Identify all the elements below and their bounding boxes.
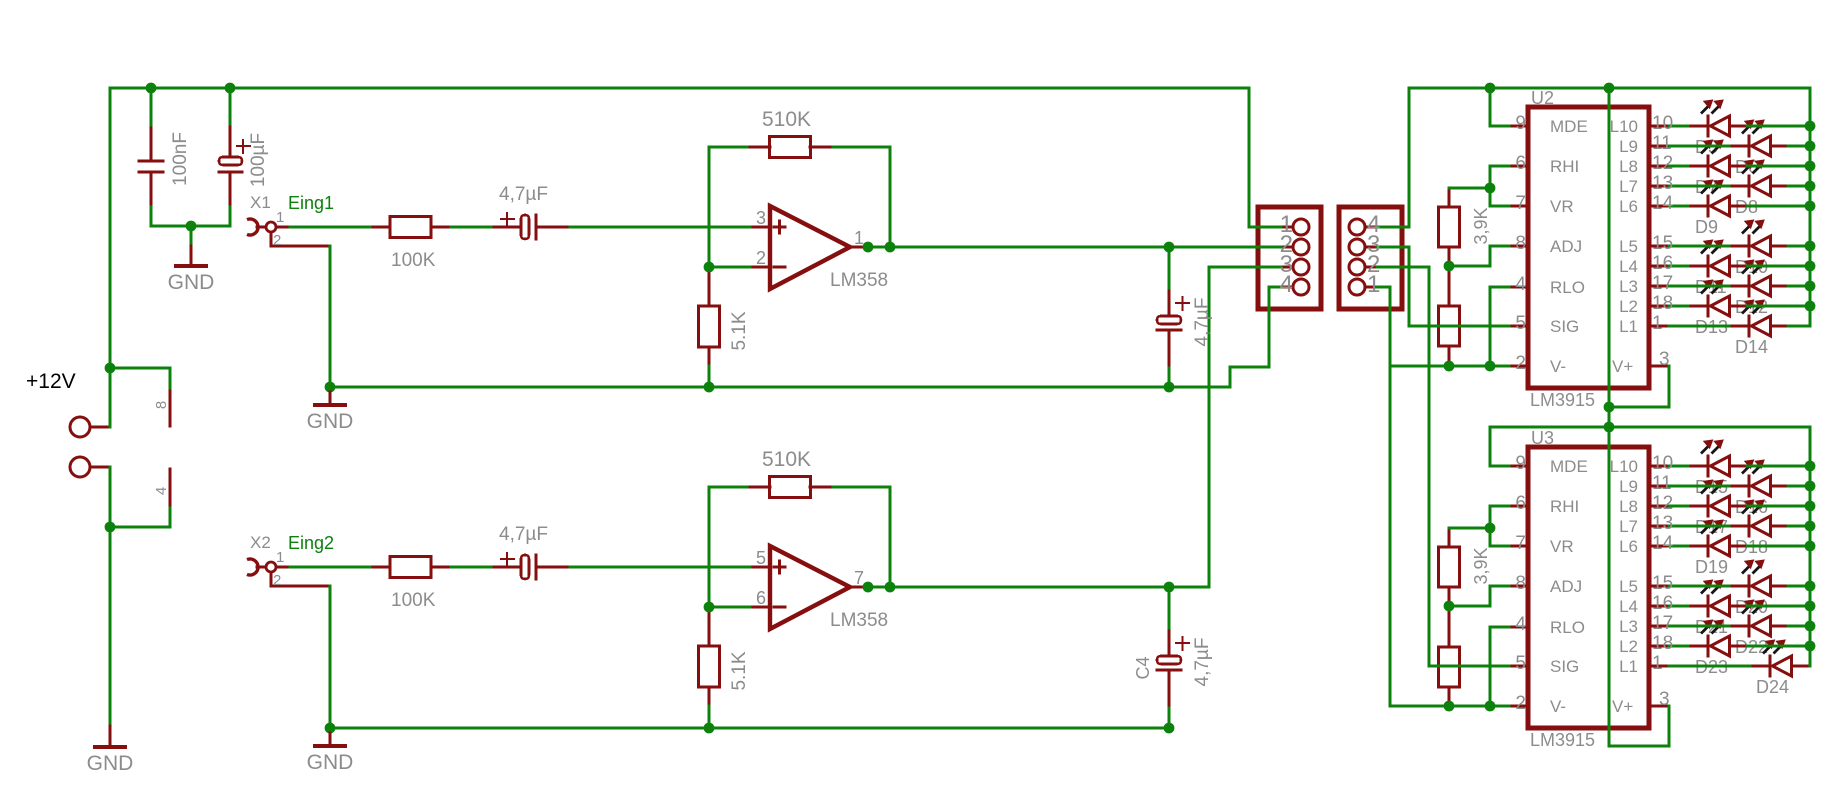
wire X1 pin2 to ground rail: [329, 245, 332, 389]
wire U3 top rail: [1489, 426, 1812, 429]
pin 15 L5 U2: [1648, 245, 1671, 248]
svg-text:5: 5: [756, 548, 766, 568]
svg-text:VR: VR: [1550, 197, 1574, 216]
wire out1 to connector pin2: [1168, 246, 1283, 249]
LED D22: [1728, 625, 1751, 628]
wire cap to op-amp +input: [569, 226, 752, 229]
svg-text:16: 16: [1652, 593, 1673, 614]
ground rail symbol: [329, 732, 332, 748]
connector X1 pin circle: [266, 222, 276, 232]
junction cap rail: [1164, 723, 1175, 734]
resistor 5.1K: [708, 606, 711, 648]
LED D5: [1687, 125, 1710, 128]
junction rail D20: [1805, 581, 1816, 592]
svg-text:1: 1: [1652, 313, 1663, 334]
LED D21: [1687, 605, 1710, 608]
capacitor 4,7uF series: [490, 226, 523, 229]
svg-text:L8: L8: [1619, 157, 1638, 176]
svg-text:4: 4: [1280, 271, 1293, 298]
wire 100uF top: [229, 87, 232, 126]
wire D9 anode: [1746, 205, 1812, 208]
svg-text:6: 6: [1515, 153, 1526, 174]
svg-text:3: 3: [1659, 689, 1670, 710]
svg-text:X1: X1: [250, 193, 271, 212]
svg-text:18: 18: [1652, 293, 1673, 314]
wire V+ vertical: [1608, 87, 1611, 748]
junction rail D7: [1805, 161, 1816, 172]
pin 3 V+ U2: [1648, 365, 1671, 368]
junction top rail / 100uF: [225, 83, 236, 94]
wire out2 to connector pin3: [1168, 586, 1211, 589]
svg-text:7: 7: [1515, 533, 1526, 554]
wire D24 cathode: [1668, 665, 1752, 668]
wire terminal2: [89, 466, 112, 469]
svg-text:4: 4: [1515, 614, 1526, 635]
svg-text:3,9K: 3,9K: [1471, 207, 1491, 244]
wire 5.1K to rail: [708, 365, 711, 389]
svg-text:8: 8: [153, 401, 170, 409]
wire D19 anode: [1746, 545, 1812, 548]
junction rail D11: [1805, 261, 1816, 272]
svg-text:100µF: 100µF: [248, 133, 269, 187]
capacitor 4,7uF shunt: [1168, 287, 1171, 318]
resistor 100K: [390, 217, 431, 238]
svg-text:V-: V-: [1550, 357, 1566, 376]
op-amp plus mark: [773, 566, 787, 569]
connector X2 pin circle: [266, 562, 276, 572]
wire conn pin3 to U2 SIG: [1376, 246, 1411, 249]
svg-text:U2: U2: [1531, 88, 1554, 108]
junction rail D5: [1805, 121, 1816, 132]
svg-text:3,9K: 3,9K: [1471, 547, 1491, 584]
pin 14 L6 U3: [1648, 545, 1671, 548]
wire input to 100K: [289, 566, 372, 569]
wire D8 anode: [1787, 185, 1812, 188]
junction rail D16: [1805, 481, 1816, 492]
wire gnd rail1 staircase: [1168, 386, 1232, 389]
connector pin circle 4: [1349, 219, 1365, 235]
junction cap rail: [1164, 382, 1175, 393]
wire op-amp output: [867, 586, 1171, 589]
pin 4 RLO U3: [1508, 626, 1530, 629]
junction rail D21: [1805, 601, 1816, 612]
svg-text:LM358: LM358: [830, 270, 888, 291]
junction V+ U2: [1604, 402, 1615, 413]
LED D14: [1728, 325, 1751, 328]
junction ground rail: [325, 723, 336, 734]
connector X2 jack arc: [247, 559, 258, 575]
svg-text:2: 2: [1515, 353, 1526, 374]
svg-text:9: 9: [1515, 453, 1526, 474]
wire D20 anode: [1787, 585, 1812, 588]
capacitor 4,7uF series: [490, 566, 523, 569]
wire feedback right: [832, 146, 892, 149]
wire gnd stub: [190, 225, 193, 248]
pin 9 MDE U3: [1508, 465, 1530, 468]
wire +12V top rail: [109, 87, 1251, 90]
wire D17 anode: [1746, 505, 1812, 508]
svg-text:510K: 510K: [762, 448, 811, 471]
svg-text:V+: V+: [1612, 697, 1633, 716]
wire conn pin2 to U3 SIG: [1376, 266, 1431, 269]
svg-text:LM358: LM358: [830, 610, 888, 631]
svg-text:14: 14: [1652, 533, 1674, 554]
ground rail symbol: [329, 391, 332, 407]
junction rail D22: [1805, 621, 1816, 632]
connector pin circle 1: [1349, 279, 1365, 295]
wire D16 anode: [1787, 485, 1812, 488]
wire ADJ U2: [1489, 245, 1511, 248]
svg-text:4,7µF: 4,7µF: [499, 184, 548, 205]
junction op-amp output: [863, 242, 874, 253]
wire U3 V- row: [1389, 705, 1511, 708]
junction rail D6: [1805, 141, 1816, 152]
wire feedback left vertical: [708, 486, 711, 609]
IC U3 LM3915 body: [1528, 447, 1649, 728]
wire D13 cathode: [1668, 305, 1690, 308]
svg-text:4,7µF: 4,7µF: [1192, 638, 1213, 687]
IC U2 LM3915 body: [1528, 107, 1649, 388]
plus mark series cap: [500, 558, 515, 560]
wire D11 anode: [1746, 265, 1812, 268]
wire D7 cathode: [1668, 165, 1690, 168]
svg-text:L2: L2: [1619, 637, 1638, 656]
wire D12 cathode: [1668, 285, 1731, 288]
svg-text:18: 18: [1652, 633, 1673, 654]
power pin 4 LM358: [169, 468, 172, 510]
svg-text:17: 17: [1652, 613, 1673, 634]
wire feedback left vertical: [708, 146, 711, 269]
wire D21 cathode: [1668, 605, 1690, 608]
svg-text:V+: V+: [1612, 357, 1633, 376]
wire D17 cathode: [1668, 505, 1690, 508]
pin 15 L5 U3: [1648, 585, 1671, 588]
wire D23 anode: [1746, 645, 1812, 648]
wire -input: [708, 606, 752, 609]
wire terminal1: [89, 426, 112, 429]
resistor 3,9K upper U2: [1448, 187, 1451, 209]
connector block: [1339, 207, 1402, 309]
wire D12 anode: [1787, 285, 1812, 288]
plus mark shunt cap: [1175, 302, 1190, 304]
svg-text:L6: L6: [1619, 537, 1638, 556]
junction rail D23: [1805, 641, 1816, 652]
pin 5 SIG U3: [1508, 665, 1530, 668]
wire V+ hook U3: [1668, 705, 1671, 748]
pin 6 RHI U3: [1508, 505, 1530, 508]
LED D16: [1728, 485, 1751, 488]
wire D20 cathode: [1668, 585, 1731, 588]
svg-text:L1: L1: [1619, 657, 1638, 676]
LED D11: [1687, 265, 1710, 268]
svg-text:L2: L2: [1619, 297, 1638, 316]
op-amp minus mark: [773, 606, 787, 609]
wire D8 cathode: [1668, 185, 1731, 188]
junction -input / 5.1K: [704, 602, 715, 613]
wire MDE U2: [1489, 87, 1492, 128]
wire D16 cathode: [1668, 485, 1731, 488]
wire D18 cathode: [1668, 525, 1731, 528]
svg-text:2: 2: [273, 572, 281, 589]
svg-text:L3: L3: [1619, 617, 1638, 636]
wire D9 cathode: [1668, 205, 1690, 208]
svg-text:Eing2: Eing2: [288, 533, 334, 553]
svg-text:8: 8: [1515, 233, 1526, 254]
svg-text:6: 6: [1515, 493, 1526, 514]
junction output cap: [1164, 242, 1175, 253]
junction V- row U2: [1444, 361, 1455, 372]
svg-text:12: 12: [1652, 493, 1673, 514]
svg-text:MDE: MDE: [1550, 117, 1588, 136]
wire ground rail: [329, 386, 1171, 389]
pin 18 L2 U3: [1648, 645, 1671, 648]
pin 4 RLO U2: [1508, 286, 1530, 289]
op-amp LM358: [770, 206, 850, 289]
svg-text:GND: GND: [307, 751, 354, 774]
LED D6: [1728, 145, 1751, 148]
wire GND left vertical: [109, 466, 112, 728]
svg-text:5.1K: 5.1K: [729, 311, 750, 350]
pin 13 L7 U2: [1648, 185, 1671, 188]
wire RHI/VR U2: [1489, 165, 1511, 168]
svg-text:4: 4: [153, 487, 170, 495]
pin 13 L7 U3: [1648, 525, 1671, 528]
wire GND to pin4: [109, 526, 172, 529]
wire U2 V- row: [1389, 365, 1511, 368]
junction V+ U3 rail: [1604, 422, 1615, 433]
wire X1 pin2: [270, 231, 273, 248]
op-amp plus mark: [773, 226, 787, 229]
wire 5.1K to rail: [708, 705, 711, 730]
LED D20: [1728, 585, 1751, 588]
svg-text:5.1K: 5.1K: [729, 651, 750, 690]
pin 14 L6 U2: [1648, 205, 1671, 208]
svg-text:9: 9: [1515, 113, 1526, 134]
wire D7 anode: [1746, 165, 1812, 168]
svg-text:+12V: +12V: [26, 370, 76, 393]
svg-text:4,7µF: 4,7µF: [1192, 298, 1213, 347]
svg-text:L5: L5: [1619, 577, 1638, 596]
svg-text:RHI: RHI: [1550, 497, 1579, 516]
pin 1 L1 U3: [1648, 665, 1671, 668]
svg-text:L7: L7: [1619, 177, 1638, 196]
wire op-amp output: [867, 246, 1171, 249]
wire 100uF bottom: [229, 206, 232, 228]
terminal circle GND pin2: [70, 457, 90, 477]
svg-text:1: 1: [1367, 271, 1380, 298]
wire MDE U3: [1489, 426, 1492, 468]
junction output cap: [1164, 582, 1175, 593]
junction GND branch: [105, 522, 116, 533]
wire D23 cathode: [1668, 645, 1690, 648]
wire RLO U3: [1489, 626, 1511, 629]
pin 6 RHI U2: [1508, 165, 1530, 168]
pin 10 L10 U3: [1648, 465, 1671, 468]
wire +12V to pin8: [109, 367, 172, 370]
wire 100K to cap: [450, 566, 493, 569]
junction rail D15: [1805, 461, 1816, 472]
wire D22 anode: [1787, 625, 1812, 628]
pin 17 L3 U3: [1648, 625, 1671, 628]
pin 12 L8 U2: [1648, 165, 1671, 168]
LED D19: [1687, 545, 1710, 548]
svg-text:L7: L7: [1619, 517, 1638, 536]
svg-text:14: 14: [1652, 193, 1674, 214]
svg-text:1: 1: [276, 209, 284, 226]
svg-text:1: 1: [854, 228, 864, 248]
wire conn pin1 to V- net: [1376, 286, 1392, 289]
junction top rail MDE: [1485, 83, 1496, 94]
connector pin circle 4: [1293, 279, 1309, 295]
wire D5 cathode: [1668, 125, 1690, 128]
svg-text:4: 4: [1515, 274, 1526, 295]
svg-text:L3: L3: [1619, 277, 1638, 296]
wire D5 anode: [1746, 125, 1812, 128]
wire D22 cathode: [1668, 625, 1731, 628]
wire D21 anode: [1746, 605, 1812, 608]
wire input to 100K: [289, 226, 372, 229]
svg-text:3: 3: [1659, 349, 1670, 370]
resistor 3,9K lower U2: [1448, 265, 1451, 308]
wire +12V top rail right segment: [1408, 87, 1812, 90]
wire D6 anode: [1787, 145, 1812, 148]
junction RHI VR divider U2: [1485, 183, 1496, 194]
pin 9 MDE U2: [1508, 125, 1530, 128]
connector pin circle 1: [1293, 219, 1309, 235]
resistor 510K: [770, 137, 811, 158]
pin 17 L3 U2: [1648, 285, 1671, 288]
wire LED anode rail: [1809, 426, 1812, 668]
svg-text:RHI: RHI: [1550, 157, 1579, 176]
svg-text:2: 2: [273, 232, 281, 249]
junction 5.1K rail: [704, 723, 715, 734]
pin 1 L1 U2: [1648, 325, 1671, 328]
LED D10: [1728, 245, 1751, 248]
wire D13 anode: [1746, 305, 1812, 308]
wire cap to op-amp +input: [569, 566, 752, 569]
resistor 3,9K lower U3: [1448, 605, 1451, 649]
svg-text:8: 8: [1515, 573, 1526, 594]
svg-text:Eing1: Eing1: [288, 193, 334, 213]
resistor 100K: [390, 557, 431, 578]
svg-text:C4: C4: [1133, 656, 1153, 679]
LED D15: [1687, 465, 1710, 468]
svg-text:VR: VR: [1550, 537, 1574, 556]
pin 16 L4 U3: [1648, 605, 1671, 608]
svg-text:100nF: 100nF: [170, 132, 191, 186]
svg-text:13: 13: [1652, 173, 1673, 194]
junction rail D8: [1805, 181, 1816, 192]
wire ADJ U3: [1489, 585, 1511, 588]
svg-text:11: 11: [1652, 133, 1672, 154]
junction caps gnd: [186, 221, 197, 232]
pin 11 L9 U3: [1648, 485, 1671, 488]
svg-text:LM3915: LM3915: [1530, 390, 1595, 410]
svg-text:MDE: MDE: [1550, 457, 1588, 476]
connector pin circle 3: [1293, 259, 1309, 275]
svg-text:ADJ: ADJ: [1550, 237, 1582, 256]
junction top rail / 100nF: [146, 83, 157, 94]
pin 16 L4 U2: [1648, 265, 1671, 268]
svg-text:GND: GND: [87, 752, 134, 775]
connector X2 pin1 stub: [275, 566, 292, 569]
wire +12V to connector pin1: [1248, 87, 1251, 229]
svg-text:15: 15: [1652, 233, 1673, 254]
svg-text:1: 1: [1652, 653, 1663, 674]
junction +12V branch: [105, 363, 116, 374]
wire 100nF bottom: [150, 206, 153, 228]
LED D23: [1687, 645, 1710, 648]
LED D7: [1687, 165, 1710, 168]
svg-text:D24: D24: [1756, 677, 1789, 697]
resistor 5.1K: [708, 266, 711, 308]
connector X1 pin1 stub: [275, 226, 292, 229]
svg-text:10: 10: [1652, 453, 1673, 474]
connector pin circle 2: [1349, 259, 1365, 275]
LED D18: [1728, 525, 1751, 528]
junction RHI VR divider U3: [1485, 523, 1496, 534]
svg-text:2: 2: [756, 248, 766, 268]
junction rail D12: [1805, 281, 1816, 292]
resistor 510K: [770, 477, 811, 498]
capacitor C4 4,7uF: [1168, 627, 1171, 658]
svg-text:SIG: SIG: [1550, 657, 1579, 676]
connector pin circle 2: [1293, 239, 1309, 255]
ground left: [109, 725, 112, 749]
pin 5 SIG U2: [1508, 325, 1530, 328]
svg-text:GND: GND: [168, 271, 215, 294]
junction rail D19: [1805, 541, 1816, 552]
junction divider mid U3: [1444, 601, 1455, 612]
LED D12: [1728, 285, 1751, 288]
svg-text:L1: L1: [1619, 317, 1638, 336]
wire D14 anode: [1787, 325, 1812, 328]
wire D6 cathode: [1668, 145, 1731, 148]
svg-text:7: 7: [854, 568, 864, 588]
svg-text:3: 3: [756, 208, 766, 228]
wire +12V left vertical: [109, 87, 112, 429]
svg-text:6: 6: [756, 588, 766, 608]
connector X1 jack arc: [247, 219, 258, 235]
svg-text:16: 16: [1652, 253, 1673, 274]
capacitor 100uF polarized: [229, 123, 232, 159]
wire D11 cathode: [1668, 265, 1690, 268]
svg-text:17: 17: [1652, 273, 1673, 294]
wire X2 pin2: [270, 571, 273, 588]
LED D8: [1728, 185, 1751, 188]
wire D19 cathode: [1668, 545, 1690, 548]
wire conn pin4 to +12V rail: [1376, 226, 1411, 229]
junction 5.1K rail: [704, 382, 715, 393]
ground caps: [190, 245, 193, 268]
svg-text:10: 10: [1652, 113, 1673, 134]
svg-text:SIG: SIG: [1550, 317, 1579, 336]
junction ground rail: [325, 382, 336, 393]
power pin 8 LM358: [169, 387, 172, 428]
svg-text:LM3915: LM3915: [1530, 730, 1595, 750]
plus mark series cap: [500, 218, 515, 220]
pin 8 ADJ U2: [1508, 245, 1530, 248]
svg-text:7: 7: [1515, 193, 1526, 214]
svg-text:L8: L8: [1619, 497, 1638, 516]
junction rail D18: [1805, 521, 1816, 532]
svg-text:11: 11: [1652, 473, 1672, 494]
svg-text:13: 13: [1652, 513, 1673, 534]
junction -input / 5.1K: [704, 262, 715, 273]
junction op-amp output: [863, 582, 874, 593]
op-amp minus mark: [773, 266, 787, 269]
wire D10 anode: [1787, 245, 1812, 248]
